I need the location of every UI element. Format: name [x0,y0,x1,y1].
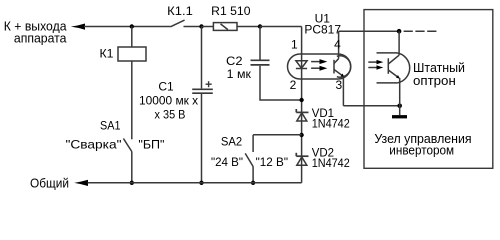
wire: C2 bottom down and over to LED cathode node [260,66,302,100]
svg-text:оптрон: оптрон [413,73,456,88]
wire: SA1 to bottom rail [131,152,133,183]
wire: U1 emitter to ground node [343,105,399,107]
svg-text:10000 мк х: 10000 мк х [139,94,198,108]
stock optocoupler partial body [377,53,410,83]
wire: K1 coil branch vertical [131,27,133,140]
wire: C2 branch top [259,27,261,60]
svg-text:К1: К1 [100,49,114,61]
wire: dashed continuation inside box [404,30,437,32]
svg-text:"БП": "БП" [138,137,164,151]
light arrows of U1 [311,59,327,71]
label: C1 value [139,79,198,121]
svg-text:аппарата: аппарата [14,31,67,46]
pin 4 lead of U1 [338,31,340,59]
zener diode VD1 [296,109,308,121]
svg-text:4: 4 [334,37,341,51]
wire: stock collector lead [398,31,400,55]
node: output terminal arrow (К + выхода) [71,24,85,30]
wire: bottom rail [88,182,302,184]
svg-text:SA1: SA1 [100,121,121,133]
zener diode VD2 [296,153,308,165]
wire: C1 bottom to rail [201,94,203,183]
wire: LED column (pin1 feed, LED lead, zener chain) [301,27,303,183]
wire: top rail from arrow to K1.1 [84,26,170,28]
svg-text:Общий: Общий [30,176,69,191]
wire: C1 branch top [201,27,203,89]
label: Узел управления инвертором [374,131,471,158]
wire: top rail to LED column corner [260,26,302,28]
svg-text:С1: С1 [158,79,174,93]
node: junction K1.1 / R1 / C1 branch [199,24,203,28]
node: junction SA1 bottom [130,181,134,185]
phototransistor of stock opto [388,55,399,78]
svg-text:х 35 В: х 35 В [155,108,186,122]
wire: stock emitter lead [399,78,401,115]
node: junction SA2 bottom [251,181,255,185]
label: К + выхода аппарата [4,19,67,46]
node: junction C2 / U1 pin2 / VD1 [299,98,303,102]
polarity plus of C1 [206,81,212,87]
resistor R1 [213,23,237,31]
node: junction C1 bottom [199,181,203,185]
pin 3 lead of U1 [342,76,344,106]
wire: SA2 to bottom rail [252,167,254,183]
box: Узел управления инвертором [364,10,493,169]
switch SA2 blade [245,153,253,166]
switch SA1 blade [123,139,131,152]
label: C2 value [226,54,252,81]
svg-text:инвертором: инвертором [389,143,454,158]
svg-text:1N4742: 1N4742 [312,158,350,170]
optocoupler U1 body [288,54,351,79]
label: Штатный оптрон [413,60,465,88]
svg-text:С2: С2 [226,54,243,68]
relay coil K1 [118,47,146,61]
ground [392,115,407,118]
svg-text:"Сварка": "Сварка" [66,138,122,152]
wire: SA2 upper segment [252,135,254,152]
svg-text:3: 3 [335,78,342,92]
wire: U1 collector to control box [339,30,400,32]
node: junction R1 / C2 / U1 pin1 [258,24,262,28]
LED of U1 [296,61,307,69]
wire: R1 to C2 node [237,26,260,28]
relay contact K1.1 [170,20,201,27]
capacitor C2 plates [251,60,270,65]
node: junction emitter / ground [397,104,402,109]
wire: SA2 tap horizontal [253,134,302,136]
light arrows of stock opto [368,60,383,70]
svg-text:PC817: PC817 [304,23,341,37]
svg-text:"24 В": "24 В" [211,155,243,169]
svg-text:2: 2 [290,78,297,92]
wire: into resistor R1 [202,26,214,28]
node: junction collector of stock opto [397,29,402,34]
phototransistor of U1 [334,56,351,77]
svg-text:1: 1 [291,37,298,51]
svg-text:R1 510: R1 510 [211,4,251,18]
node: junction VD1/VD2/SA2 (12V tap) [299,133,303,137]
svg-text:1 мк: 1 мк [227,67,252,81]
capacitor C1 plates [192,89,213,93]
svg-text:К1.1: К1.1 [167,4,193,18]
node: common terminal arrow (Общий) [74,180,88,186]
svg-text:1N4742: 1N4742 [312,119,350,131]
svg-text:"12 В": "12 В" [256,155,288,169]
svg-text:SA2: SA2 [221,135,243,149]
node: junction top of K1 coil branch [130,24,134,28]
